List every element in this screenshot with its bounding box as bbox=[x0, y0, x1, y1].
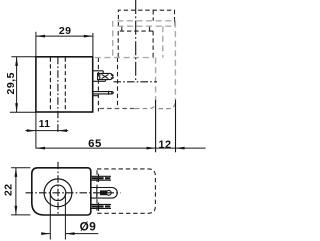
svg-text:11: 11 bbox=[39, 119, 51, 130]
svg-text:65: 65 bbox=[88, 138, 102, 150]
svg-text:22: 22 bbox=[3, 183, 15, 196]
svg-text:12: 12 bbox=[158, 139, 171, 151]
svg-text:Ø9: Ø9 bbox=[80, 220, 97, 234]
svg-text:29,5: 29,5 bbox=[5, 72, 17, 94]
svg-text:29: 29 bbox=[59, 25, 72, 37]
